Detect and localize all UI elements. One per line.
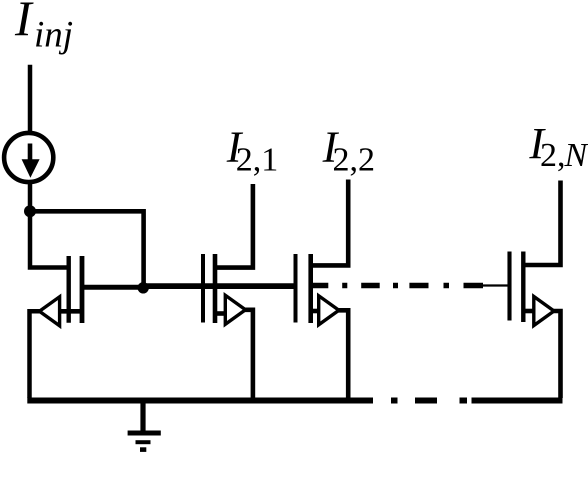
ground bus dash-dot dot 1 — [391, 398, 398, 404]
ground bar 3 — [140, 447, 146, 452]
label I_2,1 — [226, 122, 278, 178]
label I_2,N — [528, 119, 588, 174]
transistor M1 source arrow — [225, 295, 245, 324]
dash-dot gate line from M2 to MN — [313, 283, 483, 289]
transistor M0 source lead right segment — [57, 309, 82, 314]
ground bar 2 — [136, 440, 151, 444]
svg-text:N: N — [564, 137, 588, 174]
svg-text:inj: inj — [34, 15, 73, 56]
ground bus dash-dot dot 2 — [460, 398, 468, 404]
transistor M0 source arrow — [39, 297, 59, 326]
svg-text:I: I — [14, 0, 34, 46]
transistor MN source lead right segment and wire down to ground bus — [553, 311, 561, 398]
transistor MN channel bar — [521, 252, 525, 323]
transistor MN source lead left segment — [523, 309, 536, 314]
transistor M1 drain lead and wire up to I_2,1 — [215, 184, 253, 268]
label I_inj — [14, 0, 73, 56]
ground stem — [140, 400, 145, 431]
transistor M2 source lead right segment and wire down to ground bus — [338, 310, 348, 398]
transistor M1 source lead left segment — [215, 311, 228, 316]
transistor M2 source arrow — [319, 296, 339, 325]
svg-text:2,1: 2,1 — [236, 142, 278, 179]
svg-text:2,2: 2,2 — [333, 142, 376, 179]
label I_2,2 — [322, 122, 375, 178]
transistor M0 source lead left segment and wire down to ground bus — [30, 311, 42, 398]
current source CS1 arrow — [22, 144, 40, 178]
transistor M0 gate bar — [66, 256, 70, 323]
thin gate lead into MN — [482, 284, 508, 286]
current source CS1 — [4, 133, 53, 182]
node B junction dot — [138, 282, 149, 293]
transistor MN source arrow — [534, 297, 554, 326]
transistor M1 channel bar — [213, 254, 218, 323]
transistor M0 drain lead — [82, 285, 143, 290]
ground bus solid right segment — [472, 398, 563, 404]
ground bar 1 — [128, 431, 161, 436]
transistor M2 drain lead and wire up to I_2,2 — [311, 180, 349, 266]
transistor MN drain lead and wire up to I_2,N — [523, 181, 560, 266]
ground bus solid left segment — [27, 398, 373, 404]
transistor M0 channel bar — [80, 256, 85, 323]
transistor M2 source lead left segment — [311, 309, 322, 314]
transistor M2 gate bar — [294, 254, 298, 323]
node A junction dot — [24, 205, 36, 217]
wire input from I_inj to current source — [28, 65, 33, 132]
transistor M1 source lead right segment and wire down to ground bus — [245, 310, 253, 398]
ground bus dash-dot dash — [415, 398, 437, 404]
transistor MN gate bar — [507, 252, 511, 321]
svg-text:2: 2 — [540, 137, 557, 174]
wire current source to gate of M0 — [30, 183, 67, 268]
gate bus from node B to M2 — [143, 283, 296, 289]
transistor M1 gate bar — [201, 254, 205, 323]
transistor M2 channel bar — [308, 254, 313, 323]
wire node A to node B (top horizontal and right vertical) — [30, 211, 144, 283]
